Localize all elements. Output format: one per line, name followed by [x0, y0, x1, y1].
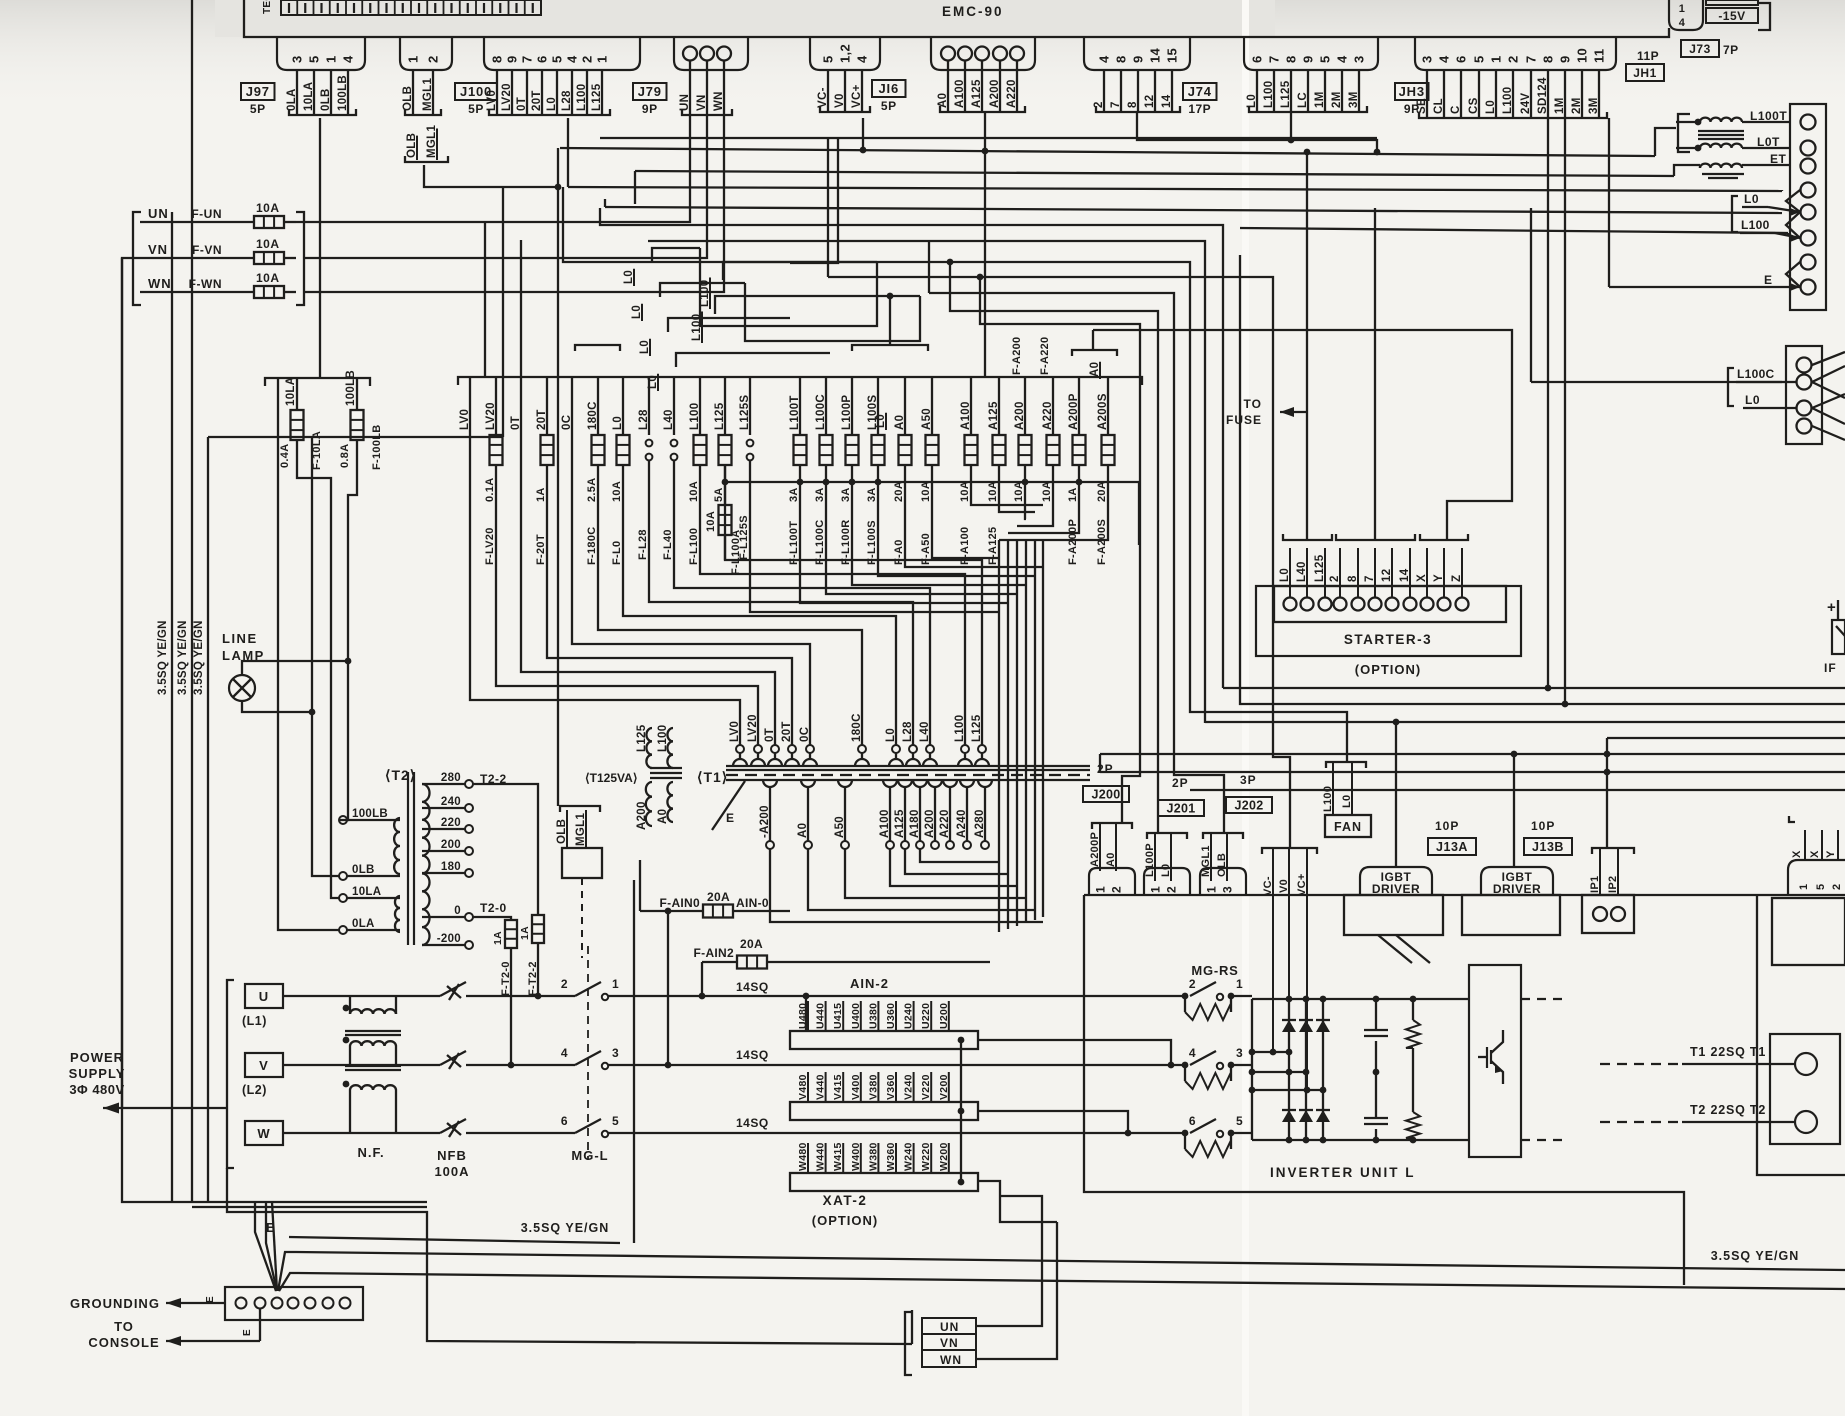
svg-text:180C: 180C — [587, 401, 599, 430]
wire far-left vertical — [121, 258, 123, 1108]
wire 0LB feed — [309, 437, 339, 876]
UN VN WN fuse block brackets — [133, 212, 304, 305]
winding tap 0C — [799, 727, 817, 766]
node L0 label right — [1732, 192, 1800, 238]
svg-text:LV0: LV0 — [729, 721, 741, 742]
svg-text:14: 14 — [1148, 47, 1163, 63]
svg-text:14SQ: 14SQ — [736, 980, 769, 994]
wire W after NFB — [466, 1132, 575, 1134]
breaker NFB 100A — [434, 982, 469, 1179]
svg-text:⟨T1⟩: ⟨T1⟩ — [697, 769, 728, 785]
wire W phase — [283, 1090, 440, 1133]
svg-text:1M: 1M — [1314, 91, 1326, 108]
svg-text:J79: J79 — [638, 84, 662, 99]
winding tap A125 — [894, 780, 912, 849]
wire XAT row2 exit — [978, 1111, 1128, 1133]
svg-text:UN: UN — [148, 206, 169, 221]
svg-text:L125: L125 — [971, 714, 983, 742]
node L0 stub 2 — [631, 283, 745, 321]
svg-text:F-A200S: F-A200S — [1096, 519, 1108, 565]
connector FAN — [1322, 762, 1371, 837]
svg-text:(L1): (L1) — [242, 1014, 267, 1028]
wire bus right y688 — [1223, 118, 1845, 691]
wire bus net5 — [563, 187, 1347, 762]
svg-text:X: X — [1809, 850, 1821, 858]
wire bus J74-JH3 y140 — [1137, 112, 1380, 155]
svg-text:A50: A50 — [921, 408, 933, 430]
svg-text:20T: 20T — [531, 90, 543, 111]
svg-text:L28: L28 — [561, 90, 573, 111]
svg-text:4: 4 — [1097, 55, 1112, 63]
svg-text:2: 2 — [1329, 575, 1341, 582]
svg-text:⟨T2⟩: ⟨T2⟩ — [385, 767, 416, 783]
svg-text:L100: L100 — [1263, 81, 1275, 108]
bracket UVW — [227, 980, 234, 1168]
wire VN bottom feed — [911, 1310, 913, 1344]
connector JH3 — [1244, 37, 1429, 116]
wire dashes from IGBT — [1521, 999, 1562, 1140]
svg-text:A200: A200 — [924, 809, 936, 838]
fuse column L40 — [662, 377, 930, 745]
connector J73 with +0V -15V — [1669, 0, 1770, 30]
svg-text:9: 9 — [1131, 55, 1146, 63]
svg-text:⟨T125VA⟩: ⟨T125VA⟩ — [585, 771, 638, 785]
svg-text:CS: CS — [1468, 97, 1480, 114]
svg-text:1: 1 — [612, 977, 619, 991]
svg-text:1: 1 — [1149, 886, 1163, 893]
terminal strip right 2 — [1786, 346, 1845, 444]
svg-text:A100: A100 — [879, 809, 891, 838]
connector J201 — [1144, 776, 1204, 895]
svg-text:UN: UN — [679, 94, 691, 111]
svg-text:0T: 0T — [516, 97, 528, 111]
svg-text:VC+: VC+ — [851, 84, 863, 108]
winding tap 180C — [851, 713, 869, 766]
connector J100 — [400, 37, 497, 116]
svg-text:240: 240 — [441, 796, 461, 808]
wire VN net — [304, 115, 707, 258]
svg-text:IF: IF — [1824, 661, 1837, 675]
svg-text:W415: W415 — [832, 1142, 844, 1171]
svg-text:2M: 2M — [1331, 91, 1343, 108]
svg-text:E: E — [1764, 273, 1773, 287]
svg-text:3.5SQ YE/GN: 3.5SQ YE/GN — [157, 620, 169, 695]
EMC-90 board bottom edge — [244, 0, 1669, 37]
svg-text:W200: W200 — [938, 1142, 950, 1171]
winding tap L40 — [919, 721, 937, 766]
svg-text:CONSOLE: CONSOLE — [88, 1335, 159, 1350]
svg-text:-A200: -A200 — [759, 805, 771, 838]
connector JH1 — [1415, 37, 1616, 118]
fuse column A200P — [1067, 377, 1086, 565]
svg-text:A240: A240 — [956, 809, 968, 838]
wire A-connector drop — [982, 112, 989, 377]
label J79 — [633, 83, 667, 100]
transformer T1 label T125VA — [585, 768, 682, 785]
svg-text:J200: J200 — [1091, 788, 1120, 802]
svg-text:Z: Z — [1451, 575, 1463, 582]
svg-text:5: 5 — [1318, 55, 1333, 63]
svg-text:UN: UN — [940, 1320, 959, 1334]
winding tap -A200 — [759, 780, 777, 849]
svg-text:0LB: 0LB — [320, 88, 332, 111]
svg-text:L125: L125 — [591, 83, 603, 111]
svg-text:V480: V480 — [797, 1074, 809, 1100]
svg-text:3: 3 — [612, 1046, 619, 1060]
label J73 7P — [1681, 40, 1739, 57]
wire XAT row1 exit — [978, 1040, 1171, 1065]
wire XAT row3 exit — [978, 1181, 1057, 1222]
svg-text:J74: J74 — [1188, 84, 1212, 99]
svg-text:TEC: TEC — [262, 0, 273, 14]
svg-text:3.5SQ YE/GN: 3.5SQ YE/GN — [193, 620, 205, 695]
label JH3 — [1395, 83, 1429, 100]
svg-text:8: 8 — [490, 55, 505, 63]
wire bus net6 VC feed — [828, 138, 1290, 848]
svg-text:N.F.: N.F. — [357, 1145, 384, 1160]
connector J200 — [1083, 762, 1135, 895]
svg-text:1A: 1A — [492, 931, 504, 945]
winding tap LV20 — [747, 714, 765, 766]
wire J97 drop to bank1 — [319, 118, 321, 378]
svg-text:0LA: 0LA — [286, 88, 298, 111]
fuse F-WN 10A — [140, 271, 296, 298]
svg-text:INVERTER UNIT L: INVERTER UNIT L — [1270, 1165, 1416, 1180]
fuse F-10LA 0.4A — [279, 377, 351, 898]
svg-text:220: 220 — [441, 817, 461, 829]
svg-text:10A: 10A — [959, 481, 971, 502]
svg-text:10A: 10A — [688, 481, 700, 502]
svg-text:A100: A100 — [960, 401, 972, 430]
svg-text:VN: VN — [940, 1336, 959, 1350]
svg-text:100A: 100A — [434, 1164, 469, 1179]
svg-text:2: 2 — [561, 977, 568, 991]
fuse column 180C — [586, 377, 862, 745]
svg-text:14SQ: 14SQ — [736, 1048, 769, 1062]
svg-text:3Φ 480V: 3Φ 480V — [69, 1082, 124, 1097]
winding tap L100 — [954, 715, 972, 766]
svg-text:24V: 24V — [1520, 93, 1532, 114]
fuse column L100 — [688, 377, 965, 745]
svg-text:JH1: JH1 — [1633, 66, 1657, 80]
svg-text:4: 4 — [1679, 17, 1686, 29]
node L100 stubs — [691, 262, 920, 343]
svg-text:TO: TO — [1244, 397, 1262, 411]
svg-text:1: 1 — [595, 55, 610, 63]
svg-text:X: X — [1416, 574, 1428, 582]
node E label right — [1609, 118, 1800, 287]
starter STARTER-3 block — [1256, 534, 1521, 677]
svg-text:CL: CL — [1433, 98, 1445, 114]
transformer T1 left winding L125 L100 — [636, 724, 673, 768]
svg-text:LINE: LINE — [222, 631, 258, 646]
svg-text:11P: 11P — [1637, 49, 1659, 63]
svg-text:W380: W380 — [867, 1142, 879, 1171]
svg-text:(OPTION): (OPTION) — [812, 1213, 879, 1228]
fuse column A0 — [893, 377, 912, 565]
svg-text:14: 14 — [1161, 94, 1173, 108]
svg-text:WN: WN — [940, 1353, 962, 1367]
fuse column A50 — [920, 377, 939, 565]
node L0 stub 1 — [623, 248, 700, 286]
svg-text:5: 5 — [1236, 1114, 1243, 1128]
svg-text:LC: LC — [1297, 92, 1309, 108]
svg-text:3P: 3P — [1240, 773, 1257, 787]
svg-text:W240: W240 — [903, 1142, 915, 1171]
svg-text:A220: A220 — [1042, 401, 1054, 430]
svg-text:F-L40: F-L40 — [662, 529, 674, 560]
winding tap A200 — [924, 780, 942, 849]
svg-text:L40: L40 — [919, 721, 931, 742]
svg-text:10P: 10P — [1531, 819, 1555, 833]
svg-text:1A: 1A — [535, 487, 547, 502]
svg-text:2M: 2M — [1571, 97, 1583, 114]
terminal V (L2) — [242, 1053, 283, 1097]
fuse column L0 — [611, 377, 896, 745]
svg-text:W220: W220 — [920, 1142, 932, 1171]
transformer ET — [1700, 152, 1790, 178]
svg-text:10A: 10A — [1041, 481, 1053, 502]
winding tap LV0 — [729, 721, 747, 766]
svg-text:F-L100: F-L100 — [688, 528, 700, 565]
wire bus net4 — [648, 241, 1205, 723]
svg-text:4: 4 — [341, 55, 356, 63]
transformer T1 core — [697, 766, 1090, 785]
svg-text:5: 5 — [612, 1114, 619, 1128]
svg-text:0.8A: 0.8A — [339, 444, 351, 468]
svg-text:A125: A125 — [894, 809, 906, 838]
svg-text:5: 5 — [821, 55, 836, 63]
svg-text:MG-L: MG-L — [571, 1148, 608, 1163]
wire WN net — [304, 115, 724, 292]
svg-text:8: 8 — [1127, 101, 1139, 108]
svg-text:F-AIN0: F-AIN0 — [660, 896, 700, 910]
svg-text:SE: SE — [1416, 98, 1428, 114]
connector X Y output — [1788, 816, 1845, 895]
label TO CONSOLE with arrow — [88, 1309, 260, 1350]
fuse bank2 bracket — [458, 345, 1142, 385]
svg-text:GROUNDING: GROUNDING — [70, 1296, 160, 1311]
svg-text:L40: L40 — [663, 409, 675, 430]
winding tap A220 — [939, 780, 957, 849]
svg-text:10: 10 — [1575, 48, 1590, 63]
node A0 bracket — [1072, 330, 1117, 379]
svg-text:V440: V440 — [815, 1074, 827, 1100]
winding tap 0T — [764, 728, 782, 766]
contactor MG-RS with resistors — [1182, 963, 1252, 1157]
svg-text:L0: L0 — [1744, 192, 1759, 206]
svg-text:7P: 7P — [1723, 43, 1739, 57]
label J97 — [241, 83, 275, 100]
svg-text:3A: 3A — [788, 487, 800, 502]
wire T2 output 22SQ — [1600, 1103, 1795, 1122]
fuse F-T2-0 1A — [492, 920, 517, 1065]
svg-text:1: 1 — [1798, 884, 1810, 890]
svg-text:11: 11 — [1592, 49, 1607, 63]
svg-text:8: 8 — [1114, 55, 1129, 63]
wire U to inverter — [634, 980, 1185, 999]
winding tap 20T — [781, 721, 799, 766]
svg-text:100LB: 100LB — [337, 75, 349, 111]
svg-text:J73: J73 — [1689, 42, 1711, 56]
wire bus right y738 — [1607, 738, 1845, 848]
connector J74 — [1084, 37, 1217, 116]
transistor IGBT module — [1469, 965, 1521, 1157]
svg-text:3A: 3A — [866, 487, 878, 502]
svg-text:5P: 5P — [250, 102, 266, 116]
svg-text:20A: 20A — [893, 481, 905, 502]
fuse column A200 — [1013, 377, 1032, 502]
svg-text:5P: 5P — [881, 99, 897, 113]
svg-text:LV0: LV0 — [486, 90, 498, 111]
svg-text:JI6: JI6 — [879, 81, 899, 96]
svg-text:F-A0: F-A0 — [893, 539, 905, 565]
svg-text:1: 1 — [1236, 977, 1243, 991]
svg-text:1: 1 — [1489, 55, 1504, 63]
svg-text:F-AIN2: F-AIN2 — [694, 946, 734, 960]
svg-text:L0: L0 — [1246, 94, 1258, 108]
fuse column A100 — [959, 377, 978, 565]
svg-text:8: 8 — [1347, 575, 1359, 582]
svg-text:4: 4 — [561, 1046, 568, 1060]
connector JI6 — [810, 37, 906, 113]
svg-text:W400: W400 — [850, 1142, 862, 1171]
svg-text:3.5SQ YE/GN: 3.5SQ YE/GN — [521, 1221, 610, 1235]
svg-text:MGL1: MGL1 — [422, 78, 434, 111]
wire bottom rail top — [122, 1108, 427, 1207]
wire V phase — [283, 1046, 440, 1065]
svg-text:7: 7 — [1267, 55, 1282, 63]
svg-text:F-A200: F-A200 — [1011, 337, 1023, 375]
terminal strip right 1 — [1786, 104, 1826, 310]
wire J202 feed crossing — [0, 0, 1, 1]
svg-text:4: 4 — [1189, 1046, 1196, 1060]
svg-text:0LA: 0LA — [352, 918, 375, 930]
fuse column L28 — [637, 377, 913, 745]
svg-text:8: 8 — [1284, 55, 1299, 63]
svg-text:1: 1 — [406, 55, 421, 63]
winding tap A240 — [956, 780, 974, 849]
wire bus right y722 — [1205, 719, 1845, 726]
node E tap of T1 — [712, 781, 745, 830]
svg-text:6: 6 — [561, 1114, 568, 1128]
wire WN link — [976, 1222, 1057, 1359]
svg-text:5: 5 — [1472, 55, 1487, 63]
svg-text:A0: A0 — [797, 823, 809, 838]
winding tap L28 — [902, 721, 920, 766]
svg-text:20T: 20T — [536, 409, 548, 430]
svg-text:U360: U360 — [885, 1003, 897, 1029]
svg-text:3.5SQ YE/GN: 3.5SQ YE/GN — [1711, 1249, 1800, 1263]
fuse F-T2-2 1A — [519, 915, 544, 997]
svg-text:F-UN: F-UN — [191, 207, 222, 221]
connector J100 secondary labels OLB MGL1 — [405, 125, 448, 162]
svg-text:3: 3 — [290, 55, 305, 63]
transformer T2 — [339, 767, 507, 949]
svg-text:3A: 3A — [814, 487, 826, 502]
svg-text:L40: L40 — [1296, 561, 1308, 582]
svg-text:F-A100: F-A100 — [959, 527, 971, 565]
wire bus net8 — [947, 259, 1158, 833]
resistors bleeder — [1406, 996, 1420, 1144]
label J100 — [455, 83, 497, 100]
svg-text:20T: 20T — [781, 721, 793, 742]
svg-text:10LA: 10LA — [352, 886, 381, 898]
wire to J13B — [1511, 751, 1518, 867]
svg-text:6: 6 — [1189, 1114, 1196, 1128]
IGBT driver J13A — [1360, 819, 1476, 896]
svg-text:L125: L125 — [714, 402, 726, 430]
connector UN VN WN terminal — [674, 37, 748, 115]
svg-text:F-L100S: F-L100S — [866, 520, 878, 565]
svg-text:U: U — [259, 989, 269, 1004]
connector J97 — [241, 37, 365, 116]
svg-text:3: 3 — [1221, 886, 1235, 893]
wire bus right y754 — [1100, 751, 1845, 758]
svg-text:A0: A0 — [937, 93, 949, 108]
svg-text:F-LV20: F-LV20 — [484, 527, 496, 565]
wire bus net7 — [929, 241, 1224, 833]
svg-text:9: 9 — [1558, 55, 1573, 63]
terminal W — [245, 1121, 283, 1145]
fuse F-VN 10A — [140, 237, 296, 264]
wire bus right y772 — [1100, 769, 1845, 776]
node E fan to ground bus — [255, 1202, 298, 1291]
svg-text:U440: U440 — [815, 1003, 827, 1029]
svg-text:5: 5 — [1815, 884, 1827, 890]
filter N.F. — [343, 1005, 401, 1160]
svg-text:9: 9 — [1301, 55, 1316, 63]
transformer L100T L0T — [1676, 109, 1790, 152]
svg-text:12: 12 — [1144, 95, 1156, 108]
nodes VC- V0 VC+ — [1262, 848, 1317, 1093]
svg-text:F-L100R: F-L100R — [840, 520, 852, 566]
svg-text:10A: 10A — [611, 481, 623, 502]
svg-text:5: 5 — [307, 55, 322, 63]
wire TO FUSE with arrow — [1226, 152, 1307, 540]
svg-text:4: 4 — [1437, 55, 1452, 63]
svg-text:280: 280 — [441, 772, 461, 784]
wire L100 common bus — [722, 479, 1139, 545]
fuse column A220 — [1041, 377, 1060, 502]
svg-text:J13A: J13A — [1436, 840, 1468, 854]
svg-text:A200S: A200S — [1097, 393, 1109, 430]
svg-text:F-A220: F-A220 — [1039, 337, 1051, 375]
svg-text:A180: A180 — [909, 809, 921, 838]
svg-text:F-A200P: F-A200P — [1067, 519, 1079, 565]
svg-text:E: E — [726, 811, 735, 825]
svg-text:L0: L0 — [1745, 393, 1760, 407]
svg-text:F-L0: F-L0 — [611, 541, 623, 565]
svg-text:20A: 20A — [740, 937, 763, 951]
fuse column 20T — [535, 377, 792, 745]
contactor MG-L — [561, 946, 634, 1163]
svg-text:2: 2 — [1189, 977, 1196, 991]
labels F-A200 F-A220 — [1011, 337, 1051, 375]
fuse F-AIN2 20A — [694, 937, 990, 999]
svg-text:5P: 5P — [468, 102, 484, 116]
svg-text:7: 7 — [1524, 55, 1539, 63]
svg-text:A0: A0 — [894, 415, 906, 430]
svg-text:12: 12 — [1381, 569, 1393, 582]
svg-text:V415: V415 — [832, 1074, 844, 1100]
svg-text:Y: Y — [1825, 850, 1837, 858]
svg-text:3.5SQ YE/GN: 3.5SQ YE/GN — [177, 620, 189, 695]
winding tap L0 — [885, 728, 903, 766]
svg-text:6: 6 — [1250, 55, 1265, 63]
svg-text:4: 4 — [1335, 55, 1350, 63]
connector J79 — [484, 37, 667, 116]
